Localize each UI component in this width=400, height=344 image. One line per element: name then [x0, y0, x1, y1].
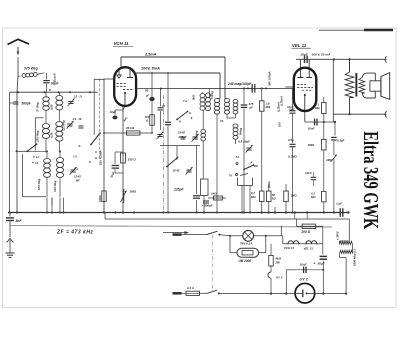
svg-text:10nF: 10nF	[289, 108, 295, 112]
svg-text:µF: µF	[145, 94, 149, 98]
svg-text:7A: 7A	[35, 161, 38, 165]
svg-text:245 mag/100µF: 245 mag/100µF	[227, 82, 253, 86]
svg-text:1MΩ: 1MΩ	[291, 194, 298, 198]
svg-text:7A: 7A	[220, 119, 223, 123]
svg-text:ZF = 473 kHz: ZF = 473 kHz	[56, 230, 93, 236]
svg-text:0,2 A: 0,2 A	[187, 286, 194, 290]
svg-text:670 Weg: 670 Weg	[37, 178, 41, 190]
svg-text:Eltra 349 GWK: Eltra 349 GWK	[359, 131, 383, 229]
svg-text:UY 2: UY 2	[276, 276, 283, 280]
svg-text:(1kΩ): (1kΩ)	[268, 181, 271, 188]
svg-text:78V 0,1A: 78V 0,1A	[240, 241, 253, 245]
svg-text:UB 2000: UB 2000	[239, 259, 252, 263]
svg-text:300 V, 20 mA: 300 V, 20 mA	[312, 53, 332, 57]
svg-text:26 kΩ: 26 kΩ	[125, 126, 135, 130]
svg-text:150 Ω: 150 Ω	[128, 158, 137, 162]
svg-text:310 Weg: 310 Weg	[53, 180, 57, 192]
svg-text:9kΩ: 9kΩ	[192, 94, 196, 100]
svg-text:2W: 2W	[275, 260, 281, 264]
svg-text:5nF: 5nF	[16, 219, 23, 223]
svg-text:0,75mA: 0,75mA	[279, 96, 283, 106]
svg-text:10nF: 10nF	[308, 127, 315, 131]
svg-text:Busch: Busch	[53, 73, 57, 82]
svg-text:0,58: 0,58	[50, 104, 54, 110]
svg-text:1kΩ: 1kΩ	[211, 192, 217, 196]
svg-text:225pF: 225pF	[173, 188, 185, 192]
svg-text:200 Ω: 200 Ω	[301, 230, 311, 234]
svg-text:+: +	[314, 262, 316, 266]
svg-text:1MΩ: 1MΩ	[130, 190, 137, 194]
svg-text:15-45: 15-45	[74, 175, 81, 179]
svg-text:10nF: 10nF	[305, 171, 312, 175]
svg-text:VCH 11: VCH 11	[114, 41, 130, 46]
svg-text:7A: 7A	[236, 155, 239, 159]
svg-text:UY 2: UY 2	[300, 277, 309, 281]
svg-text:0,5µ: 0,5µ	[288, 138, 294, 142]
svg-text:MF: MF	[76, 179, 80, 183]
svg-text:500pF: 500pF	[22, 102, 32, 106]
svg-text:10µF: 10µF	[110, 110, 117, 114]
svg-text:MΩ: MΩ	[315, 106, 320, 110]
svg-text:11,2 Weg: 11,2 Weg	[63, 120, 66, 131]
svg-text:0,58: 0,58	[50, 132, 54, 138]
svg-text:0,1µF: 0,1µF	[337, 139, 345, 143]
svg-text:50: 50	[145, 89, 149, 93]
svg-text:7A: 7A	[229, 174, 232, 178]
svg-text:1MΩ: 1MΩ	[308, 143, 315, 147]
svg-text:VEL 11: VEL 11	[292, 43, 307, 48]
svg-text:x 380V: x 380V	[336, 231, 340, 241]
svg-text:6Weg: 6Weg	[239, 128, 243, 135]
svg-text:15-45: 15-45	[173, 169, 180, 173]
svg-text:225pF: 225pF	[178, 135, 187, 139]
svg-text:10nF: 10nF	[300, 263, 307, 267]
svg-text:1 A: 1 A	[73, 155, 77, 159]
svg-text:1MΩ: 1MΩ	[326, 158, 333, 162]
svg-text:4,9 - 19: 4,9 - 19	[72, 117, 82, 121]
svg-text:20µF: 20µF	[300, 53, 308, 57]
svg-text:5 Weg: 5 Weg	[210, 91, 214, 99]
svg-text:250 Weg: 250 Weg	[36, 130, 40, 143]
svg-text:100V, 8mA: 100V, 8mA	[141, 67, 160, 71]
svg-text:1 µF: 1 µF	[336, 202, 342, 206]
svg-text:VEL 11: VEL 11	[304, 246, 314, 250]
svg-text:MΩ: MΩ	[266, 105, 271, 109]
svg-text:38V 0,8mA: 38V 0,8mA	[267, 71, 271, 86]
svg-text:375 Weg: 375 Weg	[24, 67, 39, 71]
svg-text:0,1MΩ: 0,1MΩ	[288, 155, 297, 159]
svg-text:VCH 11: VCH 11	[284, 246, 294, 250]
svg-text:pF: pF	[249, 106, 254, 110]
svg-text:1,5 - 21: 1,5 - 21	[74, 95, 83, 99]
svg-text:37 Weg: 37 Weg	[36, 102, 40, 112]
svg-text:310Weg: 310Weg	[196, 130, 199, 140]
svg-text:= 500pF: = 500pF	[202, 204, 213, 208]
svg-text:10V: 10V	[278, 122, 282, 127]
svg-text:6300 Weg 0,1: 6300 Weg 0,1	[353, 249, 357, 266]
svg-text:7 A: 7 A	[183, 99, 187, 103]
svg-text:10kΩ: 10kΩ	[98, 195, 102, 202]
svg-text:2,5mA: 2,5mA	[144, 52, 157, 56]
svg-text:4,5-20µF: 4,5-20µF	[237, 139, 250, 143]
